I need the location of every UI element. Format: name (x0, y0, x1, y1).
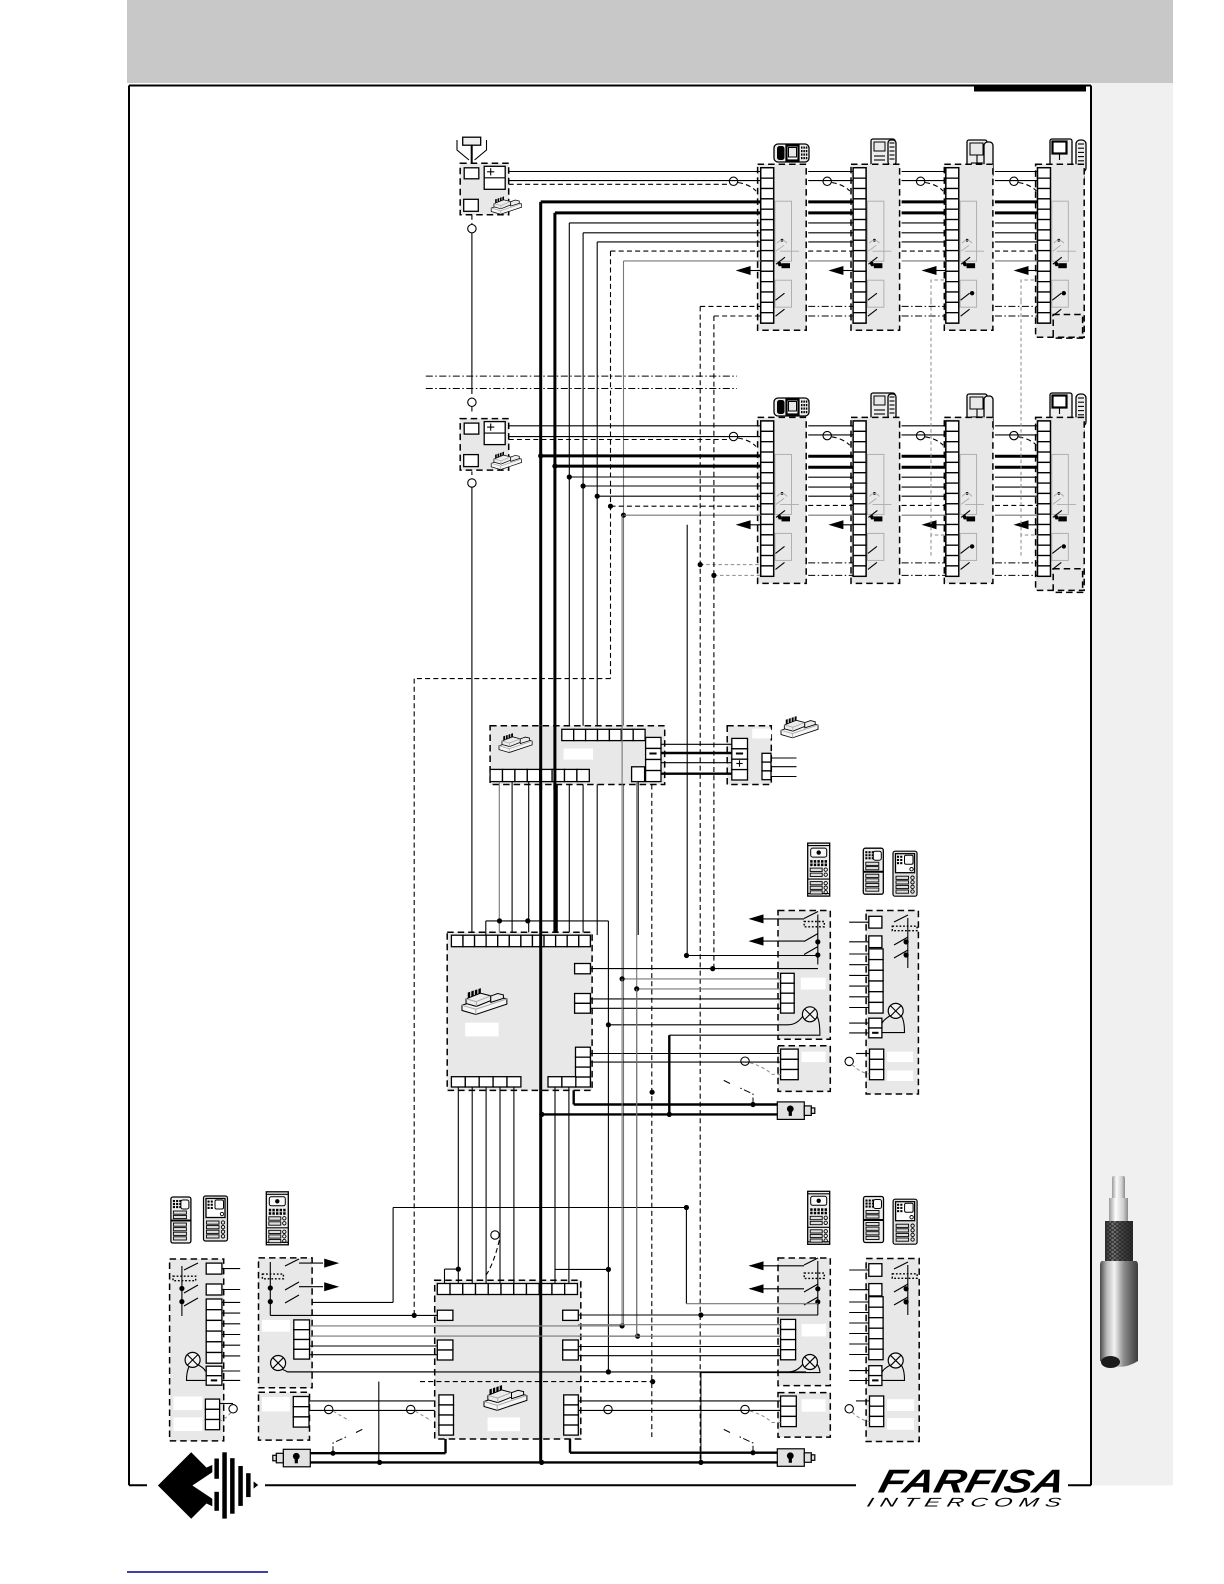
riser bus corner (row 1) (541, 202, 761, 261)
blue rule bottom left (127, 1571, 268, 1573)
BR2 lower cells (870, 1396, 884, 1427)
header band (127, 0, 1173, 83)
door station BL1 enclosure (170, 1259, 224, 1441)
terminal strip row2 col1 (761, 421, 774, 576)
lamp feed wire across PS2 (288, 1369, 807, 1374)
DS1 label (801, 978, 826, 990)
DS2 lower stub + ring (845, 1054, 870, 1075)
DS2 lower cells (870, 1049, 884, 1080)
PS1 bottom strip left (451, 1077, 521, 1087)
wire BL2 to PS2 left A (270, 1313, 437, 1318)
BR2 lamp (888, 1353, 903, 1368)
main riser through PS1 (539, 932, 542, 1090)
BL2 lower wires (309, 1401, 439, 1421)
PS2 module icon (484, 1385, 527, 1410)
PS2 right cell A (563, 1310, 579, 1320)
wires BL2 cells to PS2 (310, 1323, 641, 1354)
entrance panel icon BP1 (171, 1197, 191, 1243)
internal circuit row1 col2 (867, 201, 891, 316)
BL1 switches (173, 1263, 198, 1316)
floor separator lines (426, 376, 737, 388)
wires DV1 bottom to PSU (499, 782, 638, 935)
DD1 label (752, 729, 771, 739)
PS2 label (488, 1418, 520, 1432)
entrance panel icon MP2 (863, 848, 883, 894)
frame border (129, 86, 1091, 1486)
stub wires row2 columns 2-4 (808, 426, 1037, 515)
terminal strip row2 col2 (853, 421, 866, 576)
BR1 lower label (802, 1399, 826, 1412)
terminal strip row1 col1 (761, 168, 774, 323)
PS1 right cell B (575, 994, 591, 1014)
video monitor icon row2 (774, 398, 809, 416)
BR1 lower cells (781, 1396, 797, 1427)
intercom station row2 col1 enclosure (758, 417, 807, 583)
internal circuit row2 col4 (1052, 454, 1076, 569)
terminal strip row1 col2 (853, 168, 866, 323)
DS1 switches (804, 912, 824, 965)
DS1 terminal cells (781, 973, 795, 1013)
BL2 lower label (262, 1397, 290, 1411)
PS1 top terminal strip (451, 935, 590, 947)
BL1 terminal cells (206, 1263, 222, 1385)
door station DS2 enclosure (866, 911, 918, 1095)
lower dashed service wires row1 (700, 280, 1082, 338)
DD1 terminal cells (732, 738, 748, 780)
terminal strip row2 col3 (946, 421, 959, 576)
DS2 lamp (888, 1003, 903, 1018)
PS2 feed step wires (445, 1267, 612, 1284)
call arrows row1 (736, 266, 1038, 275)
entrance panel icon BP6 (893, 1199, 917, 1244)
DD1 output stubs (771, 758, 797, 777)
DS1 lower wires (591, 1054, 781, 1075)
right sidebar (1092, 83, 1173, 1486)
riser bus vertical runs (541, 202, 624, 1463)
BL1 lower labels (174, 1397, 203, 1411)
service riser pair (dashed) (700, 306, 714, 1462)
entrance panel icon BP2 (204, 1196, 228, 1241)
lower dashed service wires row2 (698, 535, 1083, 592)
intercom station row2 col4 enclosure (1036, 417, 1085, 590)
BR2 terminal cells (869, 1264, 883, 1386)
BR1 label (802, 1324, 827, 1337)
BR2 stub wires (849, 1270, 869, 1381)
DS2 switches (892, 915, 917, 968)
door phone icon row1 col2 (871, 139, 896, 178)
internal circuit row1 col1 (775, 201, 799, 316)
intercom station row1 col4 enclosure (1036, 164, 1085, 337)
DS1 lamp wires (606, 1016, 820, 1035)
line distributor DD1 enclosure (727, 726, 771, 785)
BL2 terminal cells (294, 1320, 310, 1359)
PS2 bottom right cells (564, 1395, 579, 1435)
power supply PS1 enclosure (447, 932, 592, 1090)
floor distributor D1 (460, 163, 521, 215)
DV1 bottom terminal strip (490, 769, 589, 781)
riser overlays through DV1 (541, 726, 555, 790)
DS1 arrows (749, 914, 805, 923)
BL1 lower cells (205, 1399, 219, 1430)
svg-text:I N T E R C O M S: I N T E R C O M S (865, 1496, 1063, 1510)
inter-row dashed links col3/col4 (931, 301, 1021, 535)
DV1 bottom right cells (632, 767, 645, 782)
power supply PS2 enclosure (435, 1280, 581, 1439)
coax cable photo (1100, 1176, 1138, 1368)
wire bundle distributor D1 to riser column (509, 172, 761, 192)
internal circuit row2 col3 (960, 454, 984, 569)
entrance panel icon MP3 (893, 851, 917, 896)
digital exchanger DV1 enclosure (490, 726, 665, 785)
intercom station row2 col2 enclosure (851, 417, 900, 583)
dashed drop DV1 area (651, 785, 653, 1438)
door phone icon row1 col3 (967, 140, 993, 189)
wires PS1 to door stations (590, 953, 818, 1008)
BR2 switches (892, 1262, 917, 1315)
internal circuit row2 col1 (775, 454, 799, 569)
call arrows row2 (736, 520, 1038, 529)
entrance panel icon BP3 (266, 1192, 288, 1245)
BL2 lamp wires (283, 1369, 612, 1374)
DV1 top terminal strip (562, 729, 645, 740)
terminal strip row2 col4 (1038, 421, 1051, 576)
BR1 lamp (802, 1355, 817, 1370)
antenna symbol (457, 137, 487, 168)
DV1 module icon (499, 733, 532, 752)
gray bus drop DV1 to lower right (636, 782, 638, 1337)
black tab bar (974, 85, 1086, 92)
dashed junction at PS1 bottom (650, 1090, 655, 1095)
lock wires bottom (310, 1373, 777, 1465)
BL1 lamp (185, 1352, 200, 1367)
internal circuit row2 col2 (867, 454, 891, 569)
intercom station row1 col1 enclosure (758, 164, 807, 330)
door station DS1 enclosure (778, 911, 830, 1040)
PS2 left cell B (437, 1340, 453, 1360)
PS1 feed step wire (486, 918, 609, 935)
electric lock EL3 (right) (777, 1449, 815, 1467)
distributor feed riser (468, 215, 476, 935)
terminal strip row1 col4 (1038, 168, 1051, 323)
BL2 label (262, 1320, 290, 1332)
BR1 terminal cells (781, 1319, 796, 1359)
PS1 label (465, 1023, 498, 1037)
gray risers right of PS1 (608, 515, 622, 1372)
PS1 module icon (462, 988, 507, 1014)
wires PS1 to PS2 verticals (458, 1087, 569, 1284)
BR1 lamp wires (701, 1364, 820, 1373)
floor distributor D2 (460, 419, 521, 471)
dashed region boundary bottom (420, 1379, 655, 1384)
door phone icon row2 col3 (967, 394, 993, 443)
internal circuit row1 col4 (1052, 201, 1076, 316)
door phone icon row2 col4 (1050, 393, 1086, 437)
bus junction dots row2 (538, 453, 626, 518)
door phone icon row1 col4 (1050, 139, 1086, 183)
wires DV1 to DD1 (661, 744, 732, 773)
door station BR2 enclosure (866, 1259, 919, 1442)
internal circuit row1 col3 (960, 201, 984, 316)
BL1 lower stub + ring (220, 1404, 238, 1422)
wires PS2 right to BR1 (578, 1312, 818, 1355)
entrance panel icon BP4 (808, 1191, 830, 1244)
PS2 left cell A (437, 1310, 453, 1320)
Farfisa diamond logo (158, 1452, 258, 1519)
door station BR1 enclosure (778, 1258, 830, 1386)
stub wires row1 columns 2-4 (808, 172, 1037, 261)
BR1 lower enclosure (778, 1393, 830, 1438)
DD1 right cells (762, 753, 771, 779)
PS1 right cells C (576, 1047, 591, 1087)
BL2 switches (262, 1259, 299, 1315)
call wire BL2 to BR area (312, 1205, 818, 1304)
BR2 lower labels (887, 1399, 914, 1411)
door phone icon row2 col2 (871, 393, 896, 432)
electric lock EL2 (left) (273, 1449, 311, 1467)
lock EL1 wires (539, 1035, 777, 1117)
intercom station row1 col2 enclosure (851, 164, 900, 330)
BL2 arrows (to monitors) (299, 1259, 339, 1268)
dashed return run (414, 679, 610, 1316)
main riser through PS2 (539, 1280, 542, 1439)
lamp drop to lock line (378, 1382, 380, 1463)
PS2 top terminal strip (437, 1284, 577, 1295)
BL2 lower cells (293, 1397, 309, 1428)
FARFISA logotype (875, 1464, 1069, 1500)
door station BL2 enclosure (259, 1258, 313, 1388)
DS1 lower cells (781, 1049, 799, 1080)
DIN module icon near DD1 (781, 716, 818, 738)
intercom station row1 col3 enclosure (944, 164, 993, 330)
electric lock EL1 (777, 1102, 815, 1120)
BL1 stub wires (222, 1269, 240, 1381)
DV1 right terminal cells (646, 737, 661, 781)
intercom station row2 col3 enclosure (944, 417, 993, 583)
BR2 lower stub + ring (845, 1401, 870, 1422)
DV1 label (564, 749, 593, 760)
DS2 terminal cells (869, 916, 883, 1038)
door open wire row2 to DS1 (686, 525, 688, 956)
video monitor icon row1 (774, 144, 809, 162)
PS2 bottom left cells (439, 1395, 454, 1435)
DS1 lamp (802, 1007, 817, 1022)
DS1 lower box enclosure (778, 1046, 830, 1092)
gray risers to PS2 right (622, 979, 637, 1336)
BR1 arrows (749, 1261, 805, 1270)
BR1 lower wires (578, 1401, 781, 1423)
BL2 lamp (271, 1356, 286, 1371)
DS2 lower labels (887, 1052, 913, 1062)
row2 bus corner wires (541, 456, 761, 515)
entrance panel icon BP5 (864, 1197, 884, 1243)
entrance panel icon MP1 (808, 843, 830, 896)
BL2 lower enclosure (259, 1392, 310, 1440)
terminal strip row1 col3 (946, 168, 959, 323)
wire bundle distributor D2 to row2 strip (509, 426, 761, 447)
PS1 bottom cells right (548, 1077, 576, 1087)
BR1 switches (804, 1258, 824, 1315)
PS1 right cell A (575, 964, 591, 974)
DS2 stub wires (849, 922, 869, 1033)
DS1 lower label (802, 1052, 826, 1062)
PS2 right cell B (563, 1340, 579, 1360)
